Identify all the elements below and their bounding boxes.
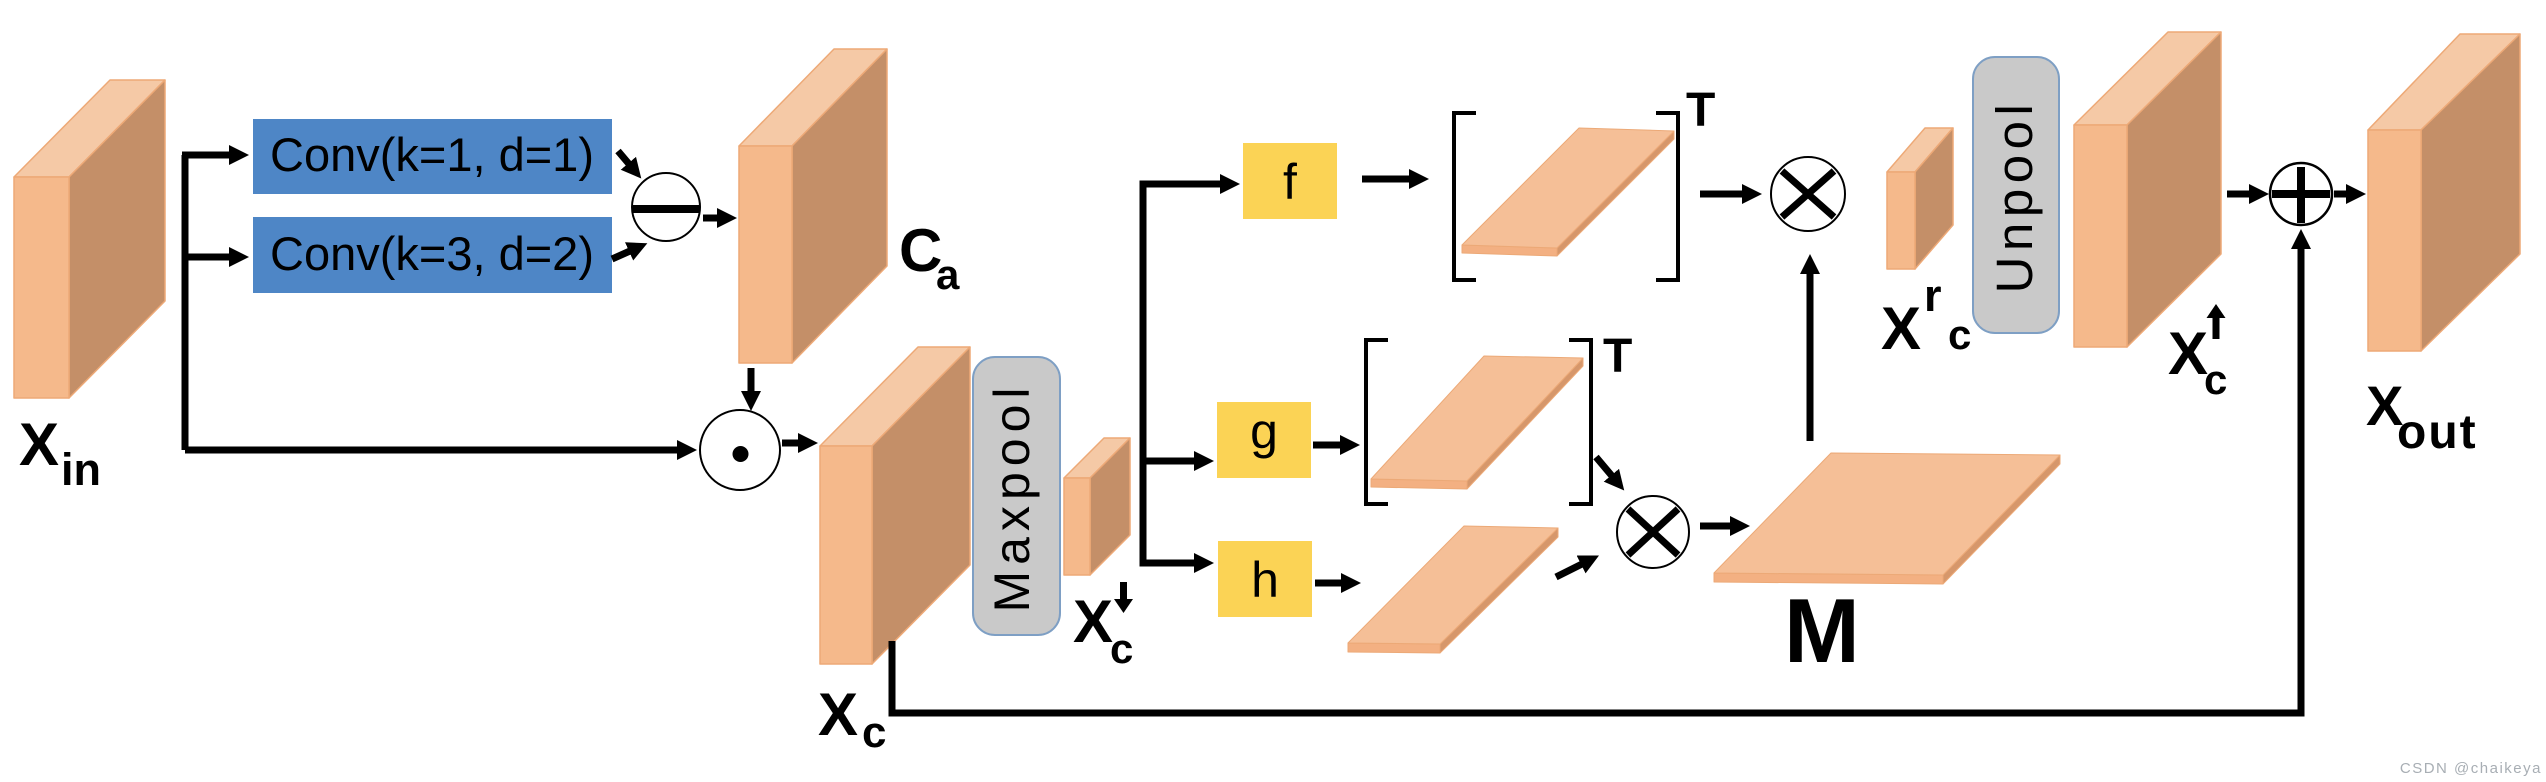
svg-text:c: c	[1948, 311, 1971, 358]
svg-text:c: c	[2204, 356, 2227, 403]
svg-text:g: g	[1250, 403, 1278, 459]
svg-text:CSDN @chaikeya: CSDN @chaikeya	[2400, 760, 2542, 777]
svg-text:f: f	[1283, 154, 1297, 210]
svg-text:X: X	[1881, 295, 1921, 362]
svg-text:Conv(k=3, d=2): Conv(k=3, d=2)	[270, 227, 594, 280]
svg-text:a: a	[936, 251, 960, 298]
svg-text:Unpool: Unpool	[1986, 99, 2043, 294]
svg-text:X: X	[1073, 588, 1113, 655]
svg-text:r: r	[1924, 270, 1942, 321]
svg-text:T: T	[1686, 84, 1715, 137]
svg-text:in: in	[61, 444, 101, 495]
svg-text:M: M	[1784, 581, 1860, 682]
svg-text:X: X	[19, 411, 59, 478]
svg-text:T: T	[1603, 330, 1632, 383]
svg-text:c: c	[862, 708, 886, 757]
svg-text:c: c	[1110, 625, 1133, 672]
svg-text:X: X	[2168, 320, 2208, 387]
svg-text:Maxpool: Maxpool	[984, 382, 1040, 613]
svg-text:h: h	[1251, 552, 1279, 608]
svg-text:X: X	[818, 681, 858, 748]
svg-text:out: out	[2397, 406, 2478, 459]
svg-text:Conv(k=1, d=1): Conv(k=1, d=1)	[270, 128, 594, 181]
